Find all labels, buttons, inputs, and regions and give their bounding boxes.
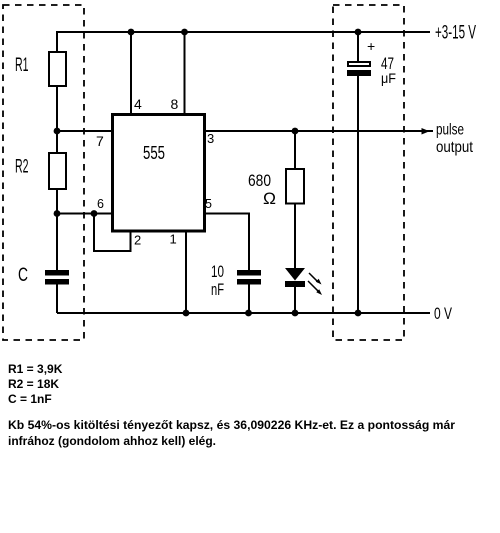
svg-text:C: C (18, 265, 28, 286)
wire pin 3 pulse line (206, 130, 433, 132)
IC U1 555 (113, 115, 205, 232)
wire pin 8 (184, 32, 186, 114)
svg-text:10: 10 (211, 262, 224, 281)
wire C to 0V rail (56, 284, 58, 313)
LED emission arrows (308, 273, 322, 295)
svg-text:4: 4 (134, 96, 142, 112)
node R1/R2/pin7 junction (54, 128, 61, 135)
wire pin 6 (57, 213, 112, 215)
wire node to C (56, 214, 58, 272)
LED D1 (285, 268, 305, 287)
svg-text:+: + (367, 38, 375, 54)
wire pin 1 (185, 231, 187, 313)
svg-text:2: 2 (134, 233, 141, 248)
wire R2 to node (56, 189, 58, 214)
svg-text:6: 6 (97, 197, 104, 211)
wire 10nF to 0V (248, 284, 250, 313)
node pin4/rail junction (128, 29, 135, 36)
dashed box left (R1 R2 C network) (3, 5, 84, 340)
wire 680 to LED (294, 203, 296, 269)
wire node to R2 (56, 131, 58, 153)
wire pin 7 (57, 130, 112, 132)
svg-text:7: 7 (96, 133, 104, 149)
wire 47uF to 0V (357, 76, 359, 313)
node 47uF/0V junction (355, 310, 362, 317)
svg-text:Kb 54%-os kitöltési tényezőt k: Kb 54%-os kitöltési tényezőt kapsz, és 3… (8, 418, 455, 432)
capacitor C (45, 270, 69, 285)
svg-text:μF: μF (381, 70, 396, 86)
svg-text:8: 8 (171, 96, 179, 112)
wire R1 top (56, 31, 58, 52)
wire pin 2 loop (94, 214, 131, 252)
wire LED to 0V (294, 287, 296, 313)
svg-text:pulse: pulse (436, 122, 464, 139)
wire R1 to node (56, 86, 58, 132)
svg-text:680: 680 (248, 171, 271, 190)
wire top +V rail (57, 31, 430, 33)
svg-text:R1 = 3,9K: R1 = 3,9K (8, 362, 63, 376)
wire LED branch upper (294, 131, 296, 169)
wire 47uF top (357, 32, 359, 62)
capacitor 47uF electrolytic (347, 62, 371, 76)
wire pin 5 (206, 214, 249, 272)
svg-text:C = 1nF: C = 1nF (8, 392, 52, 406)
dashed box right (supply capacitor) (333, 5, 404, 340)
svg-text:Ω: Ω (263, 189, 276, 208)
svg-text:3: 3 (207, 131, 214, 146)
svg-text:R1: R1 (15, 55, 29, 76)
svg-text:R2: R2 (15, 157, 29, 178)
wire 0V bottom rail (57, 312, 430, 314)
svg-text:1: 1 (170, 232, 177, 247)
resistor R1 (49, 52, 66, 86)
svg-text:nF: nF (211, 280, 224, 299)
label pulse output (436, 122, 473, 157)
svg-text:0 V: 0 V (434, 304, 452, 323)
svg-text:output: output (436, 139, 473, 156)
svg-text:+3-15 V: +3-15 V (435, 22, 476, 44)
wire pin 4 (130, 32, 132, 114)
svg-text:5: 5 (205, 197, 212, 211)
node pin2/pin6 junction (91, 210, 98, 217)
node pin8/rail junction (181, 29, 188, 36)
resistor R2 (49, 153, 66, 189)
arrowhead pulse output (422, 128, 430, 135)
svg-text:555: 555 (143, 143, 165, 163)
svg-text:R2 = 18K: R2 = 18K (8, 377, 59, 391)
node pin3/LED branch junction (292, 128, 299, 135)
resistor 680 ohm (286, 169, 304, 204)
node R2/C/pin6 junction (54, 210, 61, 217)
node 10nF/0V junction (245, 310, 252, 317)
svg-text:infrához (gondolom ahhoz kell): infrához (gondolom ahhoz kell) elég. (8, 434, 216, 448)
node pin1/0V junction (183, 310, 190, 317)
capacitor 10nF (237, 270, 261, 285)
node LED/0V junction (292, 310, 299, 317)
node 47uF/rail junction (355, 29, 362, 36)
